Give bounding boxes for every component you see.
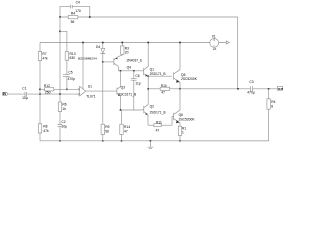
capacitor C2 <box>58 125 63 127</box>
junction dot R6 top <box>59 93 61 95</box>
svg-text:OUT: OUT <box>278 87 283 91</box>
resistor R9 <box>101 124 104 134</box>
wire VAS node y71 <box>118 70 143 72</box>
svg-text:C2: C2 <box>61 120 65 124</box>
junction dot output node <box>179 88 181 90</box>
junction dot mid resistor tap <box>147 88 149 90</box>
wire Q4 base <box>103 61 114 63</box>
capacitor C5 <box>63 75 70 77</box>
junction dot R10 bottom <box>121 140 123 142</box>
svg-text:47: 47 <box>124 129 128 133</box>
wire C2 to ground rail <box>59 126 61 141</box>
svg-text:2A: 2A <box>213 47 216 51</box>
wire feedback column x60 <box>59 17 61 94</box>
svg-text:Q1: Q1 <box>150 67 155 71</box>
junction dot zener top <box>102 42 104 44</box>
junction dot Q5 collector rail2 <box>179 42 181 44</box>
svg-text:Q3: Q3 <box>121 85 126 89</box>
transistor Q3 <box>117 71 121 110</box>
junction dot rail1-left <box>59 16 61 18</box>
junction dot load tap <box>268 88 270 90</box>
junction dot R9 bottom <box>102 140 104 142</box>
wire R6 to C2 <box>59 112 61 125</box>
wire Q5 base <box>148 75 172 77</box>
resistor R10 <box>160 87 170 90</box>
junction dot C5 on +in wire <box>66 88 68 90</box>
capacitor C1 <box>25 92 27 97</box>
wire R13 to C5 <box>66 60 68 74</box>
wire output row left <box>148 88 160 90</box>
transistor Q5 <box>174 43 180 89</box>
wire ground rail <box>40 140 269 142</box>
svg-text:2N4037_E: 2N4037_E <box>127 58 143 62</box>
transistor Q1 <box>144 43 149 77</box>
junction dot fbdrop/output <box>237 88 239 90</box>
svg-text:11p: 11p <box>135 82 140 86</box>
junction dot Q1e node <box>147 75 149 77</box>
svg-text:8: 8 <box>271 105 273 109</box>
svg-text:Q6: Q6 <box>179 113 184 117</box>
wire Q2e to R11 <box>148 124 154 126</box>
resistor R4 <box>68 16 78 19</box>
svg-text:R6: R6 <box>62 102 66 106</box>
svg-text:BZX384B2V4: BZX384B2V4 <box>78 56 97 60</box>
svg-text:R7: R7 <box>42 52 46 56</box>
junction dot Q34 collectors <box>120 70 122 72</box>
wire load to ground rail <box>180 109 269 141</box>
op-amp U1 <box>80 86 86 96</box>
svg-text:C4: C4 <box>76 1 80 5</box>
wire R8 to ground rail <box>39 133 41 141</box>
wire opamp V+ pin <box>82 43 84 89</box>
wire zener node to R9 <box>102 62 104 124</box>
wire C4 branch loop <box>60 7 90 17</box>
svg-text:47k: 47k <box>42 57 48 61</box>
wire R11 to Q6 base <box>161 117 173 126</box>
svg-text:R4: R4 <box>71 12 75 16</box>
wire V+ rail2 <box>40 42 210 44</box>
junction dot zener/Q4 base <box>102 61 104 63</box>
svg-text:20: 20 <box>125 51 129 55</box>
svg-text:D4: D4 <box>96 45 100 49</box>
wire C5 to +in wire <box>66 76 68 89</box>
resistor R6 <box>59 94 61 102</box>
svg-text:C1: C1 <box>22 86 26 90</box>
wire X1 output arrow <box>219 41 230 44</box>
junction dot R1 bottom <box>179 140 181 142</box>
resistor R7 <box>38 52 41 61</box>
svg-text:170: 170 <box>75 9 81 13</box>
svg-text:C3: C3 <box>249 80 253 84</box>
svg-text:10µ: 10µ <box>22 96 28 100</box>
ground <box>148 141 154 149</box>
svg-text:2SC3171_B: 2SC3171_B <box>118 92 137 96</box>
wire rail2 left corner down to R7 <box>39 43 41 52</box>
resistor R13 <box>65 52 68 61</box>
resistor R12 <box>40 88 78 90</box>
wire Q3 emitter to Q2 base <box>121 109 142 111</box>
junction dot bias/C1 <box>39 93 41 95</box>
svg-text:R12: R12 <box>44 84 50 88</box>
svg-text:2SD171_B: 2SD171_B <box>150 72 167 76</box>
resistor R3 <box>121 43 123 46</box>
junction dot Q3e/R10 <box>120 109 122 111</box>
wire R10 to ground rail <box>121 134 123 140</box>
svg-text:47: 47 <box>156 128 160 132</box>
resistor R8 <box>38 124 41 133</box>
capacitor C4 <box>71 5 73 9</box>
svg-text:C5: C5 <box>68 71 72 75</box>
wire R7 down to bias node <box>39 61 41 124</box>
svg-text:47k: 47k <box>43 129 49 133</box>
source X1 <box>210 39 219 48</box>
wire Q1e to Q2c vertical <box>147 76 149 103</box>
junction dot R3 top <box>121 42 123 44</box>
svg-text:56: 56 <box>105 129 109 133</box>
svg-text:2SC5200K: 2SC5200K <box>181 77 198 81</box>
junction dot opamp V+ <box>82 42 84 44</box>
wire C1 to opamp -in <box>27 93 79 95</box>
svg-text:X1: X1 <box>212 35 216 39</box>
svg-text:1: 1 <box>182 130 184 134</box>
wire branch to R13 column <box>60 31 67 51</box>
svg-text:R8: R8 <box>43 125 47 129</box>
transistor Q2 <box>144 103 148 125</box>
connector OUT <box>277 86 282 90</box>
transistor Q4 <box>114 54 122 71</box>
wire R1 to ground rail <box>179 135 181 140</box>
svg-text:470p: 470p <box>68 77 76 81</box>
svg-text:47: 47 <box>161 91 165 95</box>
junction dot bias/R12 <box>39 88 41 90</box>
svg-text:Q2: Q2 <box>150 104 155 108</box>
svg-text:R14: R14 <box>124 125 130 129</box>
connector IN <box>3 92 8 95</box>
junction dot Q1 collector rail2 <box>147 42 149 44</box>
zener D4 <box>102 43 104 49</box>
wire output rail to OUT <box>180 88 277 90</box>
svg-text:10µ: 10µ <box>61 125 67 129</box>
transistor Q6 <box>174 89 181 126</box>
svg-text:56: 56 <box>71 20 75 24</box>
svg-text:Q4: Q4 <box>127 66 132 70</box>
svg-text:R4: R4 <box>271 100 275 104</box>
capacitor C3 <box>250 86 252 91</box>
resistor R4 load <box>267 99 270 109</box>
wire load drop <box>268 89 270 99</box>
svg-text:470µ: 470µ <box>247 91 255 95</box>
wire feedback top rail <box>60 16 238 18</box>
capacitor C6 <box>131 71 137 110</box>
svg-text:U1: U1 <box>88 85 92 89</box>
svg-text:C6: C6 <box>135 74 139 78</box>
junction dot rail1-right <box>89 16 91 18</box>
junction dot ground <box>149 140 151 142</box>
junction dot fb-branch <box>59 30 61 32</box>
wire IN to C1 <box>8 93 25 95</box>
svg-text:R11: R11 <box>156 120 162 124</box>
resistor R1 <box>178 126 181 135</box>
wire R5 to output node <box>170 88 180 90</box>
svg-text:630: 630 <box>70 56 76 60</box>
wire opamp output <box>86 90 117 92</box>
junction dot C2 bottom <box>59 140 61 142</box>
svg-text:R10: R10 <box>161 84 167 88</box>
svg-text:R9: R9 <box>105 125 109 129</box>
wire R10 drop <box>121 110 122 124</box>
svg-text:1k: 1k <box>62 107 66 111</box>
svg-text:2SD171_B: 2SD171_B <box>150 110 167 114</box>
wire R9 to ground rail <box>102 134 104 140</box>
node feedback-right drop <box>237 17 239 89</box>
resistor R14 <box>120 124 123 134</box>
svg-text:2SC5200K: 2SC5200K <box>179 118 196 122</box>
resistor R11 <box>154 124 161 127</box>
junction dot C6 top <box>133 70 135 72</box>
wire Q2 base entry <box>142 109 144 111</box>
svg-text:TL071: TL071 <box>86 94 96 98</box>
svg-text:250: 250 <box>45 91 51 95</box>
